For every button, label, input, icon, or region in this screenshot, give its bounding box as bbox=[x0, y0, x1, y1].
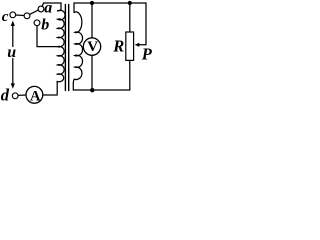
wiper wire from rail down bbox=[137, 3, 146, 45]
voltmeter branch wire bottom bbox=[91, 55, 93, 90]
svg-text:d: d bbox=[1, 85, 10, 104]
ammeter A bbox=[26, 86, 43, 103]
terminal b circle bbox=[34, 20, 40, 26]
resistor R box bbox=[126, 32, 134, 60]
primary top lead bbox=[58, 3, 62, 11]
wire d to ammeter bbox=[18, 94, 26, 96]
terminal d circle bbox=[12, 93, 18, 99]
wire a to top rail bbox=[42, 3, 44, 6]
junction dot top R bbox=[128, 1, 132, 5]
top rail right bbox=[74, 2, 146, 4]
svg-text:R: R bbox=[112, 37, 124, 56]
bottom rail secondary bbox=[73, 89, 130, 91]
wire c to switch pivot bbox=[16, 14, 24, 17]
wiper arrowhead bbox=[135, 43, 140, 47]
svg-text:u: u bbox=[7, 44, 16, 61]
svg-text:c: c bbox=[2, 9, 9, 25]
svg-text:A: A bbox=[30, 88, 41, 104]
svg-text:V: V bbox=[87, 39, 98, 55]
wire b down and to primary tap bbox=[37, 26, 57, 47]
u arrow lower line bbox=[12, 59, 14, 86]
primary bottom lead bbox=[56, 81, 58, 95]
svg-text:a: a bbox=[44, 0, 52, 17]
junction dot top V bbox=[90, 1, 94, 5]
R bottom lead bbox=[129, 60, 131, 90]
junction dot bottom V bbox=[90, 88, 94, 92]
voltmeter branch wire top bbox=[91, 3, 93, 38]
svg-text:b: b bbox=[41, 16, 49, 33]
secondary bottom lead bbox=[73, 79, 74, 90]
secondary winding (5 turns) bbox=[74, 12, 82, 80]
primary winding (8 turns) bbox=[57, 10, 65, 82]
u arrow upper line bbox=[12, 25, 14, 47]
voltmeter V bbox=[83, 38, 100, 55]
u arrowhead up bbox=[11, 21, 15, 26]
transformer core bbox=[64, 5, 66, 91]
terminal c circle bbox=[10, 12, 16, 18]
svg-text:P: P bbox=[141, 44, 152, 63]
R top lead bbox=[129, 3, 131, 32]
top rail left (a to primary) bbox=[43, 2, 61, 4]
switch pivot circle bbox=[24, 13, 30, 19]
switch blade bbox=[30, 10, 39, 14]
secondary top lead bbox=[73, 3, 75, 13]
u arrowhead down bbox=[11, 83, 15, 88]
terminal a circle bbox=[38, 6, 44, 12]
wire ammeter to primary bbox=[43, 94, 57, 96]
